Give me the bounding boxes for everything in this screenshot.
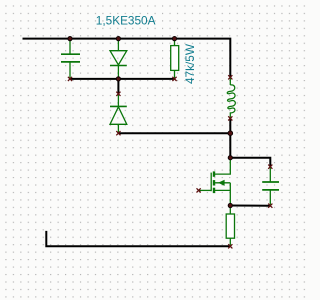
wire node to drain node — [229, 133, 231, 158]
junction dot mid node — [228, 131, 233, 136]
wire D1 bottom to D2 top — [117, 79, 119, 94]
junction dot drain node — [228, 156, 232, 160]
pin marker coil bottom — [228, 116, 232, 120]
wire source node to C2 bottom — [230, 205, 270, 207]
pin marker R2 bottom — [228, 244, 232, 248]
pin marker coil top — [228, 75, 232, 79]
pin marker C2 top — [268, 165, 272, 169]
diode D2 (TVS, cathode up) — [110, 94, 127, 133]
junction dot R1 top — [172, 37, 176, 41]
wire D2 bottom to node — [118, 132, 230, 134]
transistor Q1 (N-MOSFET) — [199, 158, 231, 206]
junction dot D1 bottom — [116, 77, 120, 81]
junction dot source node — [228, 203, 232, 207]
resistor R2 — [226, 206, 234, 247]
junction dot C1 top — [68, 37, 72, 41]
wire top bus — [23, 39, 231, 78]
pin marker D2 bottom — [116, 131, 120, 135]
label 47k/5W (rotated) — [183, 43, 197, 84]
pin marker gate — [197, 188, 201, 192]
pin marker R1 bottom — [172, 77, 176, 81]
inductor coil L1 — [227, 77, 235, 118]
pin marker C1 bottom — [68, 77, 72, 81]
wire lower horizontal net (C1/D1/R1 bottoms) — [70, 78, 175, 80]
junction dot D1 top — [116, 37, 120, 41]
capacitor C1 — [61, 39, 80, 79]
wire bottom left — [46, 231, 230, 246]
wire drain node to C2 top — [230, 158, 270, 167]
svg-text:1,5KE350A: 1,5KE350A — [96, 14, 156, 28]
svg-text:47k/5W: 47k/5W — [183, 43, 197, 84]
wire coil bottom to node — [229, 118, 231, 133]
resistor R1 47k/5W — [171, 39, 179, 79]
diode D1 (TVS, cathode down) — [110, 39, 127, 79]
pin marker C2 bottom — [268, 204, 272, 208]
pin marker D2 top — [116, 92, 120, 96]
capacitor C2 — [262, 167, 279, 206]
label 1,5KE350A — [96, 14, 156, 28]
